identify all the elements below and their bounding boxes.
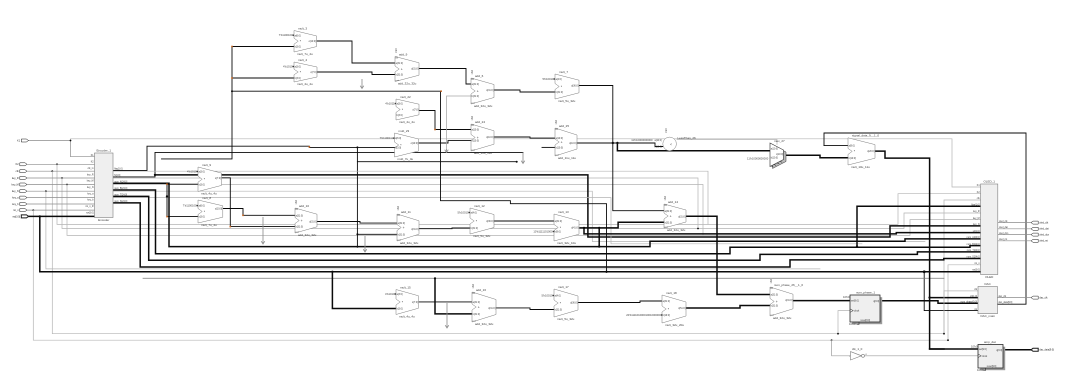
dangling net arrow 6 bbox=[445, 303, 449, 328]
svg-text:10'b0: 10'b0 bbox=[843, 295, 850, 299]
svg-text:oled_dcn: oled_dcn bbox=[999, 233, 1009, 235]
svg-text:mult_7u_4u: mult_7u_4u bbox=[201, 223, 217, 227]
svg-text:reset[9:0]: reset[9:0] bbox=[861, 319, 871, 322]
svg-text:mult_4: mult_4 bbox=[298, 58, 307, 62]
svg-text:cin: cin bbox=[397, 214, 399, 216]
svg-text:mult_5u_32u: mult_5u_32u bbox=[557, 317, 575, 321]
multiplier mult_15 bbox=[385, 285, 418, 318]
svg-text:dac_data[9:0]: dac_data[9:0] bbox=[998, 301, 1012, 304]
wire signal_data a loop bbox=[824, 133, 1026, 304]
svg-text:rst_n: rst_n bbox=[13, 209, 19, 212]
svg-text:add_32u_32u: add_32u_32u bbox=[667, 228, 686, 232]
svg-text:10'b0: 10'b0 bbox=[977, 368, 984, 372]
wire mult_8 out bbox=[223, 209, 295, 217]
multiplier mult_3 bbox=[279, 26, 317, 56]
wire key_M net bbox=[27, 184, 981, 236]
svg-text:7'b1100100: 7'b1100100 bbox=[279, 33, 293, 37]
svg-text:DAC: DAC bbox=[985, 282, 992, 286]
svg-text:key_N: key_N bbox=[12, 190, 19, 193]
svg-text:7'b1100100: 7'b1100100 bbox=[183, 204, 197, 208]
svg-text:1'b0: 1'b0 bbox=[471, 115, 474, 120]
wire add_25 out bbox=[577, 142, 770, 151]
svg-text:key_N: key_N bbox=[87, 187, 94, 189]
input port key_a bbox=[12, 196, 27, 199]
wire K1 net bbox=[29, 139, 981, 187]
wire mult_13 out bbox=[580, 222, 664, 248]
multiplier mult_13 bbox=[554, 210, 579, 245]
adder add_11 bbox=[397, 205, 419, 245]
svg-text:oled_dat: oled_dat bbox=[999, 226, 1008, 229]
wire add_9 out bbox=[419, 69, 471, 85]
svg-text:11'b10000000000: 11'b10000000000 bbox=[631, 138, 653, 142]
svg-text:sw[3:0]: sw[3:0] bbox=[86, 213, 94, 215]
svg-text:1'b0: 1'b0 bbox=[665, 128, 668, 133]
wire num_T bus bbox=[113, 195, 981, 260]
svg-text:cin: cin bbox=[555, 128, 557, 130]
svg-text:a[6:0]: a[6:0] bbox=[395, 137, 401, 140]
svg-text:cin: cin bbox=[472, 292, 474, 294]
svg-text:a[4:0]: a[4:0] bbox=[556, 78, 562, 81]
svg-text:num_A[24:0]: num_A[24:0] bbox=[967, 236, 980, 239]
svg-text:1'b0: 1'b0 bbox=[555, 119, 558, 124]
wire oled_dcn bbox=[998, 234, 1031, 236]
svg-text:add_32u_32u: add_32u_32u bbox=[298, 233, 317, 237]
multiplier mult_12 bbox=[458, 204, 494, 238]
svg-text:5'b10010: 5'b10010 bbox=[542, 294, 553, 298]
wire net to mult3 mult4 bbox=[162, 46, 607, 272]
wire mult_23 out bbox=[419, 141, 472, 143]
svg-text:dac_clk: dac_clk bbox=[1039, 297, 1048, 300]
svg-text:num_phase_1: num_phase_1 bbox=[856, 291, 875, 295]
svg-text:N[1:0]: N[1:0] bbox=[114, 175, 120, 177]
svg-text:b[31:0]: b[31:0] bbox=[398, 233, 406, 236]
wire oled_dat bbox=[998, 228, 1031, 230]
svg-text:cout: cout bbox=[397, 239, 401, 242]
svg-text:o[36:0]: o[36:0] bbox=[571, 85, 579, 88]
svg-text:cout: cout bbox=[555, 154, 559, 157]
multiplier mult_7 bbox=[543, 70, 579, 103]
svg-text:a[6:0]: a[6:0] bbox=[295, 34, 301, 37]
wire add_16 b feed bbox=[435, 278, 472, 314]
svg-text:mult_23: mult_23 bbox=[399, 129, 410, 133]
svg-text:cout: cout bbox=[770, 314, 774, 317]
svg-text:b[3:0]: b[3:0] bbox=[397, 308, 403, 311]
svg-text:s[21:0]: s[21:0] bbox=[973, 231, 980, 233]
svg-text:oled_clk: oled_clk bbox=[1039, 222, 1049, 225]
wire mult_15 b feed bbox=[332, 272, 396, 309]
svg-text:rst_n_R: rst_n_R bbox=[85, 205, 93, 208]
svg-text:b[10:0]: b[10:0] bbox=[771, 157, 778, 159]
svg-text:a[6:0]: a[6:0] bbox=[199, 205, 205, 208]
svg-text:oled_rst: oled_rst bbox=[1039, 240, 1048, 243]
svg-text:mult_32u_20u: mult_32u_20u bbox=[665, 323, 684, 327]
svg-text:mult_17: mult_17 bbox=[558, 285, 569, 289]
svg-text:cin: cin bbox=[471, 78, 473, 80]
wire num_phase_1 clock feed bbox=[837, 311, 850, 335]
wire mult_4 out bbox=[317, 72, 395, 75]
svg-text:flag[1:0]: flag[1:0] bbox=[114, 169, 123, 171]
svg-text:b[31:0]: b[31:0] bbox=[556, 91, 564, 94]
svg-text:add_16: add_16 bbox=[476, 288, 486, 292]
wire sw bus net bbox=[29, 215, 981, 310]
wire add_11 out bbox=[419, 227, 470, 230]
svg-text:add_9: add_9 bbox=[399, 52, 408, 56]
output port dac_clk bbox=[1031, 296, 1048, 299]
wire add_6 out bbox=[494, 90, 555, 92]
svg-text:10'b1111101000: 10'b1111101000 bbox=[533, 230, 553, 234]
svg-text:cout: cout bbox=[664, 226, 668, 229]
svg-text:OLED_1: OLED_1 bbox=[983, 180, 995, 184]
svg-text:1'b0: 1'b0 bbox=[397, 205, 400, 210]
output port oled_clk bbox=[1031, 221, 1049, 224]
svg-text:num_T[24:0]: num_T[24:0] bbox=[967, 250, 980, 252]
svg-text:cout: cout bbox=[471, 102, 475, 105]
svg-text:b[10:0]: b[10:0] bbox=[654, 146, 662, 149]
svg-text:q[9:0]: q[9:0] bbox=[996, 349, 1002, 352]
input port rst_n bbox=[13, 209, 27, 212]
svg-text:a[31:0]: a[31:0] bbox=[296, 214, 304, 217]
adder add_6 bbox=[471, 69, 494, 108]
wire amp_dat d feed bbox=[930, 348, 978, 350]
wire num_S bus bbox=[113, 203, 981, 267]
svg-text:mult_15: mult_15 bbox=[400, 285, 411, 289]
svg-text:mult_3: mult_3 bbox=[298, 26, 307, 30]
wire add_14 out bbox=[686, 216, 770, 294]
svg-text:cin: cin bbox=[395, 57, 397, 59]
multiplier mult_9 bbox=[187, 163, 221, 196]
wire add_10 out bbox=[317, 222, 397, 224]
wire signal_data out bbox=[875, 151, 978, 349]
wire mult_17 out bbox=[578, 301, 662, 303]
svg-text:mult_10u_11u: mult_10u_11u bbox=[851, 165, 870, 169]
module Encoder_1 bbox=[85, 149, 127, 222]
wire add_25 b stub bbox=[542, 146, 555, 148]
svg-text:<: < bbox=[670, 142, 672, 146]
svg-text:b[31:0]: b[31:0] bbox=[296, 226, 304, 229]
svg-text:o[10:0]: o[10:0] bbox=[215, 208, 223, 211]
constant for mult_18 bbox=[626, 313, 662, 317]
svg-text:num_A[24:0]: num_A[24:0] bbox=[114, 180, 127, 183]
wire mult_9 out bbox=[222, 178, 296, 228]
svg-text:cin: cin bbox=[295, 208, 297, 210]
wire inverter out bbox=[865, 355, 979, 357]
register num_phase_1 bbox=[843, 291, 882, 327]
svg-text:a[10:0]: a[10:0] bbox=[771, 149, 778, 151]
svg-text:10'b0: 10'b0 bbox=[849, 322, 856, 326]
svg-text:b[31:0]: b[31:0] bbox=[473, 313, 481, 316]
multiplier mult_22 bbox=[385, 95, 419, 124]
svg-text:o[10:0]: o[10:0] bbox=[486, 136, 494, 139]
svg-text:o[20:0]: o[20:0] bbox=[867, 150, 875, 153]
input port clk bbox=[16, 170, 27, 173]
wire add_24 out bbox=[494, 137, 555, 138]
svg-text:b[19:0]: b[19:0] bbox=[663, 314, 671, 317]
svg-text:1'b0: 1'b0 bbox=[472, 283, 475, 288]
svg-text:b[31:0]: b[31:0] bbox=[665, 221, 673, 224]
svg-text:clk_in: clk_in bbox=[88, 168, 95, 170]
adder add_9 bbox=[395, 48, 419, 86]
svg-text:b[3:0]: b[3:0] bbox=[397, 114, 403, 117]
svg-text:add_11u_11u: add_11u_11u bbox=[474, 151, 492, 155]
wire gray line 278 bbox=[143, 277, 944, 279]
wire inverter in bbox=[832, 340, 851, 356]
svg-text:a[3:0]: a[3:0] bbox=[397, 103, 403, 106]
adder add_14 bbox=[664, 195, 686, 232]
svg-text:mult_5u_32u: mult_5u_32u bbox=[558, 99, 576, 103]
svg-text:key_R: key_R bbox=[12, 177, 19, 180]
svg-text:a[10:0]: a[10:0] bbox=[472, 129, 480, 132]
svg-text:cin: cin bbox=[770, 287, 772, 289]
input port key_b bbox=[12, 203, 27, 206]
wire num_B bus bbox=[113, 190, 981, 254]
adder add_16 bbox=[472, 283, 496, 326]
wire N net staircase bbox=[113, 152, 523, 177]
svg-text:num_phase_26__1_0: num_phase_26__1_0 bbox=[774, 283, 803, 287]
input port K2 bbox=[16, 163, 27, 166]
svg-text:sw[3:0]: sw[3:0] bbox=[13, 215, 21, 218]
svg-text:a[4:0]: a[4:0] bbox=[555, 295, 561, 298]
comparator LessThan_26 bbox=[631, 128, 696, 151]
svg-text:4'b1011: 4'b1011 bbox=[385, 102, 395, 106]
input port key_M bbox=[12, 183, 27, 186]
svg-text:1'b0: 1'b0 bbox=[471, 69, 474, 74]
svg-text:+: + bbox=[403, 226, 405, 230]
svg-text:dac_data[9:0]: dac_data[9:0] bbox=[1039, 349, 1054, 352]
input port key_N bbox=[12, 190, 27, 193]
svg-text:oled_dat: oled_dat bbox=[1039, 228, 1049, 231]
svg-text:Encoder_1: Encoder_1 bbox=[96, 149, 111, 153]
svg-text:+: + bbox=[776, 300, 778, 304]
svg-text:key_b: key_b bbox=[12, 203, 19, 206]
svg-text:o[31:0]: o[31:0] bbox=[411, 228, 419, 231]
input port key_R bbox=[12, 177, 27, 180]
svg-text:+: + bbox=[477, 89, 479, 93]
multiplier mult_4 bbox=[283, 58, 317, 86]
svg-text:mult_5u_32u: mult_5u_32u bbox=[473, 234, 491, 238]
svg-text:add_25: add_25 bbox=[559, 124, 569, 128]
svg-text:key_R: key_R bbox=[87, 175, 94, 177]
svg-text:add_11: add_11 bbox=[401, 210, 411, 214]
wire dac clk feed bbox=[943, 291, 978, 335]
svg-text:+: + bbox=[301, 219, 303, 223]
svg-text:O: O bbox=[865, 354, 867, 356]
svg-text:LessThan_26: LessThan_26 bbox=[678, 136, 697, 140]
svg-text:mult_4u_4u: mult_4u_4u bbox=[399, 315, 415, 319]
svg-text:rst_n: rst_n bbox=[974, 262, 980, 265]
output port oled_rst bbox=[1031, 239, 1048, 242]
svg-text:a[31:0]: a[31:0] bbox=[665, 210, 673, 213]
svg-text:add_32u_32u: add_32u_32u bbox=[398, 82, 417, 86]
svg-text:b[3:0]: b[3:0] bbox=[295, 46, 301, 49]
adder add_10 bbox=[295, 199, 317, 237]
svg-text:a[31:0]: a[31:0] bbox=[396, 62, 404, 65]
svg-text:add_32u_32u: add_32u_32u bbox=[773, 316, 792, 320]
svg-text:sw[3:0]: sw[3:0] bbox=[972, 270, 980, 272]
svg-text:b[31:0]: b[31:0] bbox=[396, 74, 404, 77]
output port oled_dcn bbox=[1031, 233, 1050, 236]
wire key_N net bbox=[27, 190, 925, 269]
svg-text:DAC_main: DAC_main bbox=[980, 314, 995, 318]
module DAC bbox=[961, 282, 1013, 318]
svg-text:20'b11110100001001000000: 20'b11110100001001000000 bbox=[626, 313, 661, 317]
wire num_A bus bbox=[113, 183, 981, 246]
svg-text:add_24: add_24 bbox=[475, 120, 485, 124]
svg-text:mult_7u_4u: mult_7u_4u bbox=[297, 52, 313, 56]
svg-text:mult_7u_4u: mult_7u_4u bbox=[398, 157, 414, 161]
svg-text:o[7:0]: o[7:0] bbox=[412, 109, 418, 112]
svg-text:b[31:0]: b[31:0] bbox=[471, 227, 479, 230]
svg-text:add_11u_11u: add_11u_11u bbox=[558, 156, 576, 160]
svg-text:a[3:0]: a[3:0] bbox=[199, 171, 205, 174]
wire mult_3 out bbox=[317, 41, 396, 63]
svg-text:10'b0: 10'b0 bbox=[971, 344, 978, 348]
svg-text:b[10:0]: b[10:0] bbox=[472, 140, 480, 143]
output port oled_dat bbox=[1031, 227, 1049, 230]
wire mult_15 out bbox=[419, 301, 473, 303]
svg-text:mult_22: mult_22 bbox=[400, 95, 411, 99]
svg-text:mux_27: mux_27 bbox=[774, 139, 785, 143]
svg-text:7'b1100111: 7'b1100111 bbox=[380, 136, 394, 140]
svg-text:key_a: key_a bbox=[12, 197, 19, 200]
svg-text:num_T[24:0]: num_T[24:0] bbox=[114, 194, 127, 196]
svg-text:4'b1010: 4'b1010 bbox=[187, 170, 197, 174]
svg-text:add_6: add_6 bbox=[475, 74, 484, 78]
svg-text:clock: clock bbox=[854, 310, 860, 313]
svg-text:signal_data_9__1_0: signal_data_9__1_0 bbox=[852, 134, 879, 138]
svg-text:b[31:0]: b[31:0] bbox=[771, 305, 779, 308]
svg-text:amp_dat: amp_dat bbox=[984, 340, 996, 344]
wire key_b net bbox=[27, 203, 95, 205]
svg-text:num_B[24:0]: num_B[24:0] bbox=[967, 244, 980, 246]
multiplier mult_8 bbox=[183, 196, 223, 227]
svg-text:num_B[24:0]: num_B[24:0] bbox=[114, 188, 127, 190]
wire lessthan out bbox=[677, 140, 777, 145]
wire mult_22 out bbox=[419, 111, 471, 131]
svg-text:key_M: key_M bbox=[87, 181, 94, 183]
adder num_phase_26__1_0 bbox=[770, 278, 804, 320]
svg-text:clock: clock bbox=[982, 355, 988, 358]
inverter clk_1_0 bbox=[849, 347, 867, 360]
svg-text:b[3:0]: b[3:0] bbox=[199, 183, 205, 186]
wire amp_dat q out bbox=[1003, 349, 1031, 351]
svg-text:b[31:0]: b[31:0] bbox=[472, 95, 480, 98]
svg-text:+: + bbox=[477, 136, 479, 140]
svg-text:cin: cin bbox=[471, 124, 473, 126]
svg-text:5'b10010: 5'b10010 bbox=[458, 211, 469, 215]
wire s data lane bbox=[583, 227, 981, 234]
svg-text:add_32u_32u: add_32u_32u bbox=[400, 241, 419, 245]
svg-text:+: + bbox=[478, 305, 480, 309]
svg-text:5'b10010: 5'b10010 bbox=[543, 77, 554, 81]
wire oled_rst bbox=[998, 240, 1031, 242]
svg-text:set[9:0]: set[9:0] bbox=[979, 348, 987, 351]
wire mult9 mult8 b feed bbox=[166, 183, 198, 217]
wire num_phase_26 out bbox=[793, 300, 850, 302]
svg-text:Encoder: Encoder bbox=[98, 218, 109, 222]
register amp_dat bbox=[971, 340, 1005, 372]
svg-text:b[9:0]: b[9:0] bbox=[555, 231, 561, 234]
svg-text:o[31:0]: o[31:0] bbox=[486, 89, 494, 92]
module OLED_1 bbox=[967, 180, 1009, 279]
svg-text:o[31:0]: o[31:0] bbox=[411, 68, 419, 71]
svg-text:flag[1:0]: flag[1:0] bbox=[971, 205, 980, 207]
svg-text:o[7:0]: o[7:0] bbox=[310, 71, 316, 74]
svg-text:a[31:0]: a[31:0] bbox=[663, 300, 671, 303]
wire flag to OLED riser bbox=[856, 206, 981, 248]
svg-text:dac_clk: dac_clk bbox=[998, 296, 1007, 298]
adder add_25 bbox=[555, 119, 577, 160]
wire key_R net bbox=[27, 177, 981, 229]
svg-text:add_32u_32u: add_32u_32u bbox=[475, 322, 494, 326]
svg-text:o[36:0]: o[36:0] bbox=[486, 220, 494, 223]
svg-text:a[31:0]: a[31:0] bbox=[472, 83, 480, 86]
svg-text:key_R: key_R bbox=[973, 211, 980, 213]
svg-text:o[31:0]: o[31:0] bbox=[309, 221, 317, 224]
svg-text:OLED: OLED bbox=[985, 275, 994, 279]
adder add_24 bbox=[471, 115, 494, 155]
svg-text:mult_32u_10u: mult_32u_10u bbox=[557, 241, 576, 245]
svg-text:num_S[24:0]: num_S[24:0] bbox=[114, 201, 127, 203]
svg-text:cout: cout bbox=[472, 320, 476, 323]
svg-text:cout: cout bbox=[295, 231, 299, 234]
constant for mult_13 bbox=[533, 230, 554, 234]
wire clk net bbox=[27, 170, 981, 333]
svg-text:a[10:0]: a[10:0] bbox=[654, 139, 662, 142]
dangling net arrow 2 add_6 b bbox=[445, 96, 471, 153]
svg-text:o[7:0]: o[7:0] bbox=[412, 301, 418, 304]
wire N bus line bbox=[154, 174, 981, 237]
svg-text:cout: cout bbox=[471, 149, 475, 152]
wire add_16 out bbox=[496, 308, 554, 310]
multiplier mult_18 bbox=[662, 291, 686, 327]
svg-text:b[10:0]: b[10:0] bbox=[849, 157, 857, 160]
dangling net arrow 3 bbox=[521, 152, 525, 163]
wire mult_7 out bbox=[579, 86, 664, 211]
dangling net arrow 5 bbox=[363, 236, 367, 252]
svg-text:11'b10000000000: 11'b10000000000 bbox=[747, 156, 769, 160]
svg-text:1'b0: 1'b0 bbox=[770, 278, 773, 283]
svg-text:add_14: add_14 bbox=[668, 200, 678, 204]
dangling net arrow 4 bbox=[261, 217, 265, 244]
svg-text:a[31:0]: a[31:0] bbox=[398, 222, 406, 225]
svg-text:reset[9:0]: reset[9:0] bbox=[987, 365, 997, 368]
wire num_phase_1 q bbox=[880, 301, 978, 304]
output port dac_data[9:0] bbox=[1031, 348, 1054, 351]
svg-text:mult_18: mult_18 bbox=[666, 291, 677, 295]
dangling net arrow 1 bbox=[360, 79, 364, 89]
svg-text:o[36:0]: o[36:0] bbox=[570, 302, 578, 305]
wire mult_18 out bbox=[686, 306, 770, 309]
svg-text:set[9:0]: set[9:0] bbox=[851, 300, 859, 303]
multiplier mult_23 bbox=[380, 129, 419, 161]
svg-text:clk_1_0: clk_1_0 bbox=[852, 347, 863, 351]
wire flag net staircase bbox=[113, 146, 518, 248]
svg-text:o[41:0]: o[41:0] bbox=[571, 227, 579, 230]
svg-text:b[3:0]: b[3:0] bbox=[199, 216, 205, 219]
svg-text:a[31:0]: a[31:0] bbox=[771, 294, 779, 297]
svg-text:add_10: add_10 bbox=[299, 204, 309, 208]
svg-text:a[31:0]: a[31:0] bbox=[473, 301, 481, 304]
svg-text:o[10:0]: o[10:0] bbox=[569, 142, 577, 145]
svg-text:mult_8: mult_8 bbox=[202, 196, 211, 200]
multiplier signal_data_9__1_0 bbox=[848, 134, 879, 170]
wire K2 net bbox=[27, 163, 981, 224]
input port sw[3:0] bbox=[13, 215, 29, 218]
svg-text:a[9:0]: a[9:0] bbox=[849, 145, 855, 148]
svg-text:mult_4u_4u: mult_4u_4u bbox=[297, 82, 313, 86]
svg-text:num_S[24:0]: num_S[24:0] bbox=[967, 257, 980, 259]
svg-text:mult_13: mult_13 bbox=[558, 210, 569, 214]
